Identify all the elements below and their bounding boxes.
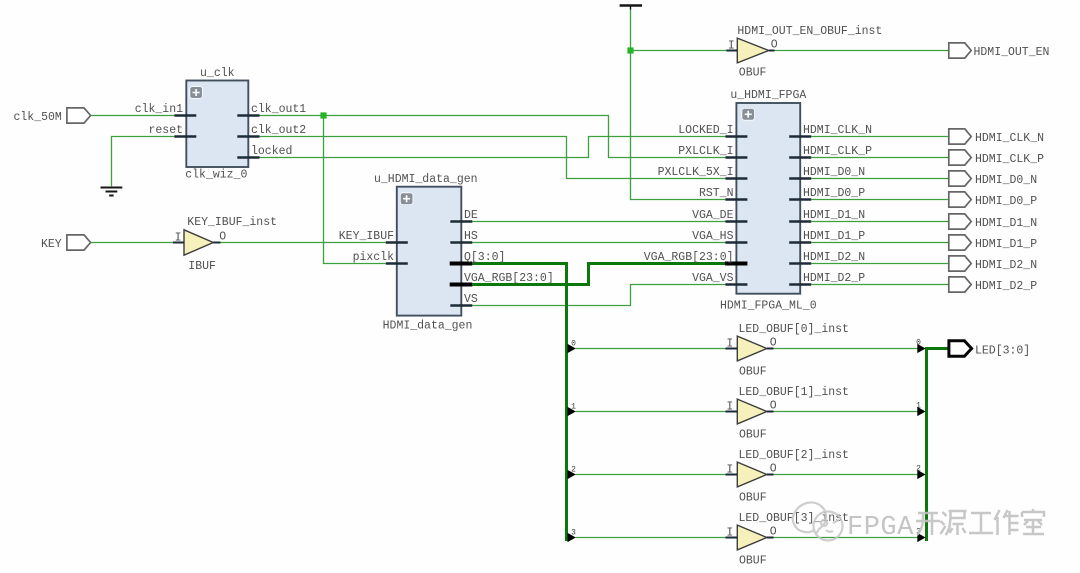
pin PXLCLK_5X_I (725, 177, 747, 179)
svg-text:2: 2 (916, 465, 921, 474)
LED OBUF 3 output stub (767, 537, 774, 539)
pin HDMI_D1_P (789, 241, 811, 243)
svg-text:I: I (728, 40, 735, 53)
svg-text:HDMI_D0_N: HDMI_D0_N (803, 166, 865, 179)
svg-text:LED_OBUF[0]_inst: LED_OBUF[0]_inst (739, 323, 849, 336)
pin clk_out1 (237, 114, 259, 116)
bus LED right collector (927, 349, 949, 542)
svg-text:O: O (770, 526, 777, 539)
pin HDMI_CLK_P (789, 156, 811, 158)
svg-text:clk_out2: clk_out2 (251, 124, 306, 137)
output port HDMI_D2_N (949, 256, 971, 271)
HDMI_FPGA expand button (742, 108, 755, 120)
svg-text:HDMI_D1_N: HDMI_D1_N (803, 209, 865, 222)
module u_clk (clk_wiz_0) (186, 81, 248, 168)
bus merge arrow right 2 (917, 470, 925, 479)
svg-text:OBUF: OBUF (739, 554, 767, 567)
svg-text:HDMI_D0_P: HDMI_D0_P (803, 187, 865, 200)
module u_HDMI_FPGA (HDMI_FPGA_ML_0) (736, 103, 800, 294)
pin VGA_DE (725, 220, 747, 222)
svg-text:HDMI_CLK_P: HDMI_CLK_P (803, 145, 872, 158)
svg-text:clk_in1: clk_in1 (135, 103, 183, 116)
svg-text:HDMI_data_gen: HDMI_data_gen (383, 319, 473, 332)
svg-text:KEY: KEY (41, 238, 62, 251)
OBUF output stub top (769, 50, 775, 52)
svg-text:HDMI_D2_N: HDMI_D2_N (975, 259, 1037, 272)
svg-text:3: 3 (571, 529, 576, 538)
svg-text:HDMI_FPGA_ML_0: HDMI_FPGA_ML_0 (720, 299, 817, 312)
wire VCC to OBUF input (631, 50, 738, 52)
watermark logo (793, 502, 843, 540)
wire HDMI output row 2 to port (811, 178, 949, 180)
svg-text:OBUF: OBUF (739, 428, 767, 441)
svg-text:VGA_DE: VGA_DE (692, 209, 734, 222)
svg-text:OBUF: OBUF (739, 491, 767, 504)
pin VGA_HS (725, 241, 747, 243)
svg-text:VGA_RGB[23:0]: VGA_RGB[23:0] (644, 251, 734, 264)
LED OBUF 1 input stub (726, 411, 738, 413)
pin pixclk (386, 262, 408, 264)
svg-text:OBUF: OBUF (739, 67, 767, 80)
junction on VCC net (627, 47, 633, 53)
wire reset to ground (112, 137, 175, 187)
svg-text:1: 1 (916, 402, 921, 411)
LED OBUF 0 output stub (767, 348, 774, 350)
pin DE (450, 220, 472, 222)
svg-text:HDMI_D2_N: HDMI_D2_N (803, 251, 865, 264)
svg-text:HDMI_D1_P: HDMI_D1_P (803, 230, 865, 243)
output port HDMI_OUT_EN (949, 43, 971, 58)
svg-text:O: O (770, 463, 777, 476)
wire HDMI output row 6 to port (811, 263, 949, 265)
svg-text:VGA_VS: VGA_VS (692, 272, 734, 285)
pin VGA_RGB[23:0] bus (725, 262, 748, 266)
wire LED OBUF 2 output to bus (774, 474, 918, 476)
output port LED[3:0] (949, 341, 972, 357)
svg-text:PXLCLK_I: PXLCLK_I (678, 145, 733, 158)
svg-text:HDMI_D2_P: HDMI_D2_P (975, 280, 1037, 293)
wire LED bus tap 0 to OBUF (576, 348, 726, 350)
watermark text FPGA (847, 513, 914, 543)
wire LED bus tap 3 to OBUF (576, 537, 726, 539)
pin Q[3:0] bus (450, 262, 473, 266)
pin reset (174, 135, 196, 137)
input port KEY (67, 235, 91, 250)
LED OBUF 3 input stub (726, 537, 738, 539)
wire HDMI output row 4 to port (811, 221, 949, 223)
pin HDMI_CLK_N (789, 135, 811, 137)
svg-text:VGA_RGB[23:0]: VGA_RGB[23:0] (464, 272, 554, 285)
wire LED bus tap 1 to OBUF (576, 411, 726, 413)
wire VS to VGA_VS (472, 285, 725, 306)
pin HDMI_D0_P (789, 198, 811, 200)
pin VS (450, 304, 472, 306)
junction on clk_out1 for pixclk (320, 112, 326, 118)
pin HS (450, 241, 472, 243)
wire KEY to IBUF (90, 242, 173, 244)
svg-text:HDMI_CLK_N: HDMI_CLK_N (803, 124, 872, 137)
ground symbol (101, 188, 123, 196)
pin PXLCLK_I (725, 156, 747, 158)
svg-text:DE: DE (464, 209, 478, 222)
bus merge arrow right 3 (917, 533, 925, 542)
buffer LED_OBUF[0]_inst (OBUF) (737, 336, 767, 361)
bus merge arrow right 0 (917, 344, 925, 353)
u_clk expand button (190, 87, 203, 99)
wire HDMI output row 5 to port (811, 242, 949, 244)
wire LED OBUF 0 output to bus (774, 348, 918, 350)
svg-text:u_clk: u_clk (200, 67, 235, 80)
svg-text:FPGA: FPGA (847, 513, 914, 543)
LED OBUF 2 output stub (767, 474, 774, 476)
data_gen expand button (400, 193, 413, 205)
svg-text:VGA_HS: VGA_HS (692, 230, 734, 243)
svg-text:HDMI_D0_P: HDMI_D0_P (975, 195, 1037, 208)
pin clk_in1 (174, 114, 196, 116)
output port HDMI_CLK_N (949, 129, 971, 144)
pin VGA_RGB[23:0] bus (450, 283, 473, 287)
svg-text:LED_OBUF[1]_inst: LED_OBUF[1]_inst (739, 386, 849, 399)
svg-text:HDMI_OUT_EN: HDMI_OUT_EN (974, 46, 1050, 59)
svg-text:I: I (726, 401, 733, 414)
svg-text:I: I (726, 527, 733, 540)
svg-text:KEY_IBUF: KEY_IBUF (339, 230, 394, 243)
svg-text:pixclk: pixclk (353, 251, 395, 264)
pin HDMI_D2_P (789, 283, 811, 285)
pin locked (237, 156, 259, 158)
svg-text:I: I (726, 464, 733, 477)
bus tap arrow left 1 (568, 407, 576, 416)
wire HDMI output row 0 to port (811, 136, 949, 138)
wire IBUF out to KEY_IBUF (221, 242, 386, 244)
svg-text:locked: locked (251, 145, 292, 158)
svg-text:O: O (770, 400, 777, 413)
svg-text:0: 0 (916, 339, 921, 348)
wire locked to LOCKED_I (260, 137, 726, 158)
wire clk_out1 to PXLCLK_I (260, 116, 726, 158)
svg-text:IBUF: IBUF (188, 260, 216, 273)
svg-text:reset: reset (148, 124, 183, 137)
wire pixclk branch (324, 116, 386, 264)
svg-text:HDMI_D1_N: HDMI_D1_N (975, 217, 1037, 230)
svg-text:HDMI_D2_P: HDMI_D2_P (803, 272, 865, 285)
svg-text:HDMI_D0_N: HDMI_D0_N (975, 174, 1037, 187)
bus tap arrow left 0 (568, 344, 576, 353)
svg-text:PXLCLK_5X_I: PXLCLK_5X_I (658, 166, 734, 179)
input port clk_50M (67, 108, 91, 123)
svg-text:u_HDMI_FPGA: u_HDMI_FPGA (730, 89, 806, 102)
pin HDMI_D1_N (789, 220, 811, 222)
svg-text:HS: HS (464, 230, 478, 243)
wire HS to VGA_HS (472, 242, 725, 244)
svg-text:HDMI_D1_P: HDMI_D1_P (975, 238, 1037, 251)
wire HDMI output row 7 to port (811, 284, 949, 286)
bus VGA_RGB[23:0] (472, 264, 725, 285)
svg-text:HDMI_CLK_P: HDMI_CLK_P (975, 153, 1044, 166)
wire DE to VGA_DE (472, 221, 725, 223)
svg-text:1: 1 (571, 403, 576, 412)
output port HDMI_D1_P (949, 235, 971, 250)
output port HDMI_D2_P (949, 277, 971, 292)
svg-text:O: O (771, 39, 778, 52)
svg-text:I: I (175, 232, 182, 245)
buffer LED_OBUF[3]_inst (OBUF) (737, 525, 767, 550)
svg-text:LED[3:0]: LED[3:0] (975, 345, 1030, 358)
svg-text:I: I (726, 338, 733, 351)
wire LED OBUF 1 output to bus (774, 411, 918, 413)
svg-text:VS: VS (464, 293, 478, 306)
wire VCC to RST_N (631, 9, 726, 199)
output port HDMI_D1_N (949, 214, 971, 229)
svg-text:OBUF: OBUF (739, 365, 767, 378)
svg-text:HDMI_OUT_EN_OBUF_inst: HDMI_OUT_EN_OBUF_inst (737, 25, 882, 38)
watermark hanzi 开源工作室 strokes (916, 509, 1044, 535)
LED OBUF 1 output stub (767, 411, 774, 413)
svg-text:u_HDMI_data_gen: u_HDMI_data_gen (374, 173, 478, 186)
buffer LED_OBUF[1]_inst (OBUF) (737, 399, 767, 424)
svg-text:HDMI_CLK_N: HDMI_CLK_N (975, 132, 1044, 145)
svg-text:clk_out1: clk_out1 (251, 103, 306, 116)
module u_HDMI_data_gen (HDMI_data_gen) (397, 187, 462, 316)
svg-text:RST_N: RST_N (699, 187, 734, 200)
output port HDMI_D0_N (949, 171, 971, 186)
LED OBUF 2 input stub (726, 474, 738, 476)
buffer LED_OBUF[2]_inst (OBUF) (737, 462, 767, 487)
pin KEY_IBUF (386, 241, 408, 243)
wire HDMI output row 3 to port (811, 199, 949, 201)
svg-text:O: O (770, 337, 777, 350)
pin HDMI_D0_N (789, 177, 811, 179)
bus Q[3:0] to LED bus (472, 264, 566, 542)
output port HDMI_CLK_P (949, 150, 971, 165)
wire LED bus tap 2 to OBUF (576, 474, 726, 476)
power VCC symbol (620, 6, 642, 10)
LED OBUF 0 input stub (726, 348, 738, 350)
svg-text:Q[3:0]: Q[3:0] (464, 251, 505, 264)
wire clk_50M to clk_in1 (90, 115, 174, 117)
svg-text:LED_OBUF[2]_inst: LED_OBUF[2]_inst (739, 449, 849, 462)
wire OBUF output to HDMI_OUT_EN port (775, 50, 949, 52)
bus merge arrow right 1 (917, 407, 925, 416)
svg-text:LOCKED_I: LOCKED_I (678, 124, 733, 137)
IBUF output stub (213, 242, 220, 244)
wire LED OBUF 3 output to bus (774, 537, 918, 539)
wire clk_out2 to PXLCLK_5X_I (260, 137, 726, 179)
svg-text:clk_wiz_0: clk_wiz_0 (185, 169, 247, 182)
pin RST_N (725, 198, 747, 200)
bus tap arrow left 3 (568, 533, 576, 542)
pin clk_out2 (237, 135, 259, 137)
buffer HDMI_OUT_EN_OBUF_inst (OBUF) (737, 38, 769, 63)
svg-text:O: O (219, 231, 226, 244)
output port HDMI_D0_P (949, 192, 971, 207)
pin VGA_VS (725, 283, 747, 285)
bus tap arrow left 2 (568, 470, 576, 479)
IBUF input stub (173, 242, 184, 244)
OBUF input stub top (726, 50, 737, 52)
svg-text:0: 0 (571, 340, 576, 349)
pin LOCKED_I (725, 135, 747, 137)
buffer KEY_IBUF_inst (IBUF) (184, 230, 213, 255)
wire HDMI output row 1 to port (811, 157, 949, 159)
svg-text:KEY_IBUF_inst: KEY_IBUF_inst (187, 216, 277, 229)
svg-text:clk_50M: clk_50M (14, 111, 62, 124)
svg-text:2: 2 (571, 466, 576, 475)
pin HDMI_D2_N (789, 262, 811, 264)
